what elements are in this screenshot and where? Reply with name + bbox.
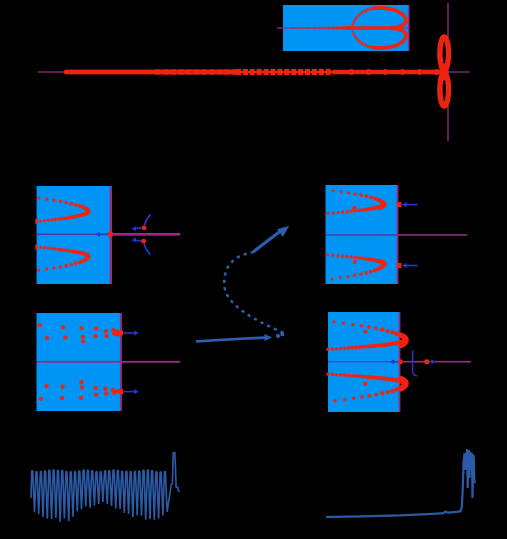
wire: purple right border of box A [110,186,112,284]
node limit-cycle blob at the fold point [431,37,449,106]
node red square marker right of box D [424,360,429,365]
node red square at upper right edge of box B [118,331,123,336]
wire: blue arrow pointing left toward box C (lower) [406,265,418,267]
wire: purple midline to the right of box A [112,233,180,236]
node red square at right edge of box C (lower) [397,263,402,268]
node inset heart-shaped limit-cycle curve [352,7,406,50]
node box-A lower parabola (red dotted, opens left) [35,246,90,272]
node red square at lower right edge of box B [118,389,123,394]
wire: blue arrow pointing right out of box B (upper) [124,332,135,334]
wire: purple midline right of box C [398,234,467,236]
wire: blue arrow pointing left toward box C (upper) [406,204,418,206]
wire: dark midline inside box A [37,233,110,235]
wire: purple right border of box D [399,312,401,412]
node time-series right: slow rise then burst of spikes [326,449,475,517]
wire: blue arrow pointing left into box A [100,233,109,235]
node box-B scattered red dots lower half [39,397,43,401]
node mu-axis: horizontal purple parameter axis of top bifurcation diagram [38,71,470,73]
wire: thick red equilibrium branch of top diagram [66,70,441,75]
node inset equilibrium dots along midline [294,27,296,29]
node box-A: blue phase box, saddle regime [37,186,110,284]
wire: dashed blue C-shaped transition curve [224,252,283,333]
wire: purple midline of inset box [277,27,409,29]
node fold-axis: vertical purple line at the fold point [447,3,449,141]
node blue fold marker (vertical tick with hook) right of box D [413,351,418,376]
wire: solid blue exit arrow pointing up-right (center) [253,231,281,252]
wire: thick red segment on inset midline [353,26,392,30]
wire: dark midline inside box C [326,234,398,236]
node box-D upper parabola (vertex pokes past edge) [326,320,408,351]
node saddle sketch right of box A: two red fixed points with manifolds [132,215,151,255]
node box-D: blue phase box, fold regime [328,312,399,412]
node red tick marks on left edge of box A [35,219,37,224]
wire: purple midline right of box D [400,361,471,363]
wire: purple right border of inset box [408,5,410,51]
wire: blue arrow pointing right out of box B (lower) [124,391,135,393]
node red dot on box D right edge midline [398,359,403,364]
node red square at right edge of box C (upper) [397,202,402,207]
wire: blue left arrow on box D midline [394,361,399,363]
node box-C: blue phase box, parabola regime [326,185,398,284]
node box-B scattered red dots upper half [38,323,42,327]
wire: purple midline through box B [37,361,181,363]
node box-A upper parabola (red dotted, opens left) [35,196,90,223]
node box-D lower parabola (vertex pokes past edge) [326,373,408,403]
wire: blue midline inside box D [328,361,399,363]
node box-C upper parabola [327,189,387,215]
wire: purple right border of box B [120,313,122,411]
wire: solid blue approach line with right arrowhead (center) [196,338,265,342]
node box-B: blue phase box, scattered-dots regime [37,313,121,411]
node time-series left: dense relaxation oscillations with final spike [31,453,180,522]
node inset-box: blue zoom inset of the fold region [283,5,409,51]
node box-C lower parabola [326,253,386,280]
node red square marker at right edge of box A [108,232,113,237]
wire: purple right border of box C [397,185,399,284]
node connector dots between arrow and dashed curve [276,334,280,338]
wire: blue right arrow after red square on box D midline [429,361,433,363]
